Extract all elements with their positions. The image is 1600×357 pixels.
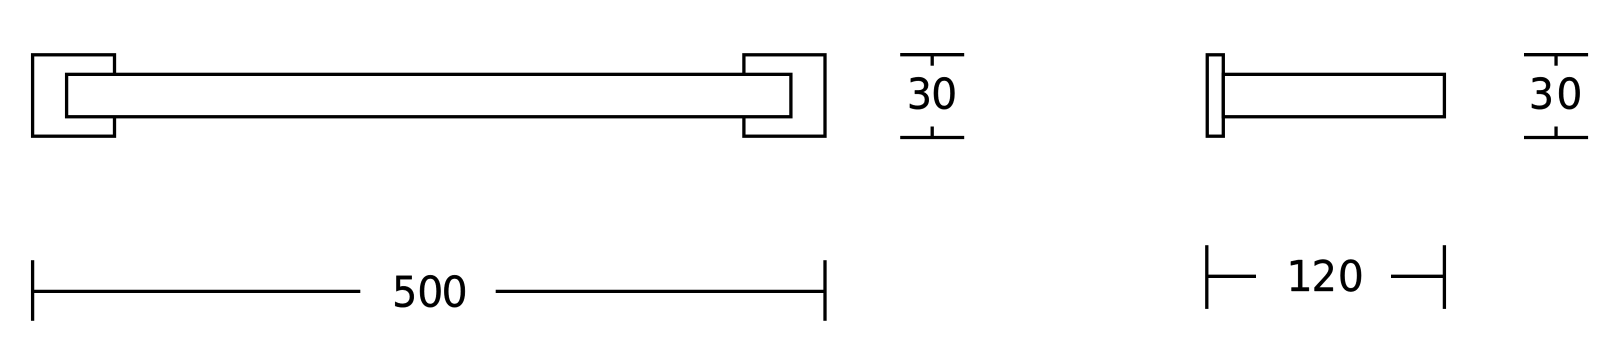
- width dimension 500: dimension line left segment: [33, 290, 361, 293]
- towel bar (side view, projecting arm): [1223, 74, 1444, 116]
- height dimension 30: bottom extension line (side view): [1524, 127, 1588, 138]
- towel bar (front view, horizontal rail): [67, 74, 791, 116]
- dimension label "120" (bar depth): [1291, 259, 1361, 291]
- width dimension 500: left end tick: [31, 260, 34, 321]
- dimension label "30" (side view bar height): [1532, 77, 1580, 109]
- width dimension 500: right end tick: [823, 260, 826, 321]
- depth dimension 120: dimension line left segment: [1207, 275, 1256, 278]
- height dimension 30: top extension line (side view): [1524, 55, 1588, 66]
- height dimension 30: top extension line (front view): [900, 55, 964, 66]
- depth dimension 120: dimension line right segment: [1391, 275, 1444, 278]
- height dimension 30: bottom extension line (front view): [900, 127, 964, 138]
- dimension label "500" (bar width): [395, 275, 465, 307]
- dimension label "30" (front view bar height): [910, 77, 955, 109]
- depth dimension 120: left end tick: [1205, 245, 1208, 309]
- width dimension 500: dimension line right segment: [496, 290, 825, 293]
- left mounting plate (front view, square): [33, 55, 115, 136]
- right mounting plate (front view, square): [744, 55, 825, 136]
- depth dimension 120: right end tick: [1443, 245, 1446, 309]
- wall plate (side view, narrow vertical): [1207, 55, 1223, 136]
